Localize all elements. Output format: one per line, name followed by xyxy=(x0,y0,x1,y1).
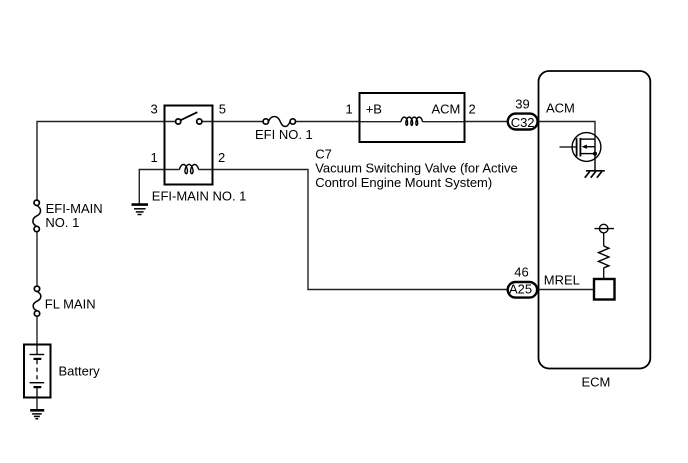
battery internal symbol xyxy=(30,345,45,398)
ECM box xyxy=(539,71,651,369)
VSV solenoid coil xyxy=(401,117,423,125)
svg-text:2: 2 xyxy=(218,150,225,165)
wire: relay pin 5 to fuse EFI NO.1 xyxy=(213,121,264,123)
svg-text:NO. 1: NO. 1 xyxy=(45,215,79,230)
relay switch wire stubs xyxy=(165,121,213,123)
ECM connector C32 pin 39 oval xyxy=(508,114,538,130)
svg-text:1: 1 xyxy=(346,102,353,117)
wire: top horizontal from riser to relay pin 3 xyxy=(36,121,164,123)
relay switch arm xyxy=(181,112,198,120)
svg-text:39: 39 xyxy=(515,97,529,112)
MOSFET source bar xyxy=(580,153,595,155)
svg-text:Vacuum Switching Valve (for Ac: Vacuum Switching Valve (for Active xyxy=(315,161,518,176)
wire: resistor to driver block xyxy=(603,268,605,279)
svg-text:5: 5 xyxy=(219,102,226,117)
svg-text:+B: +B xyxy=(366,102,382,117)
MOSFET gate lead xyxy=(560,146,577,148)
svg-text:C7: C7 xyxy=(315,147,332,162)
svg-text:ECM: ECM xyxy=(582,375,611,390)
wire: relay pin 2 to ECM connector A25 (MREL) xyxy=(213,170,508,290)
wire: battery negative to ground xyxy=(36,398,38,410)
wire: C32 to MOSFET drain inside ECM xyxy=(539,122,595,140)
MOSFET body arrow line xyxy=(586,146,596,148)
wire: A25 to driver block xyxy=(539,289,595,291)
driver block (square) inside ECM xyxy=(594,279,615,300)
relay switch contact left xyxy=(176,119,181,124)
fusible link FL MAIN (vertical) xyxy=(33,286,41,316)
MOSFET gate bar xyxy=(576,138,578,156)
svg-text:FL MAIN: FL MAIN xyxy=(45,296,96,311)
svg-text:2: 2 xyxy=(469,102,476,117)
svg-text:Control Engine Mount System): Control Engine Mount System) xyxy=(315,175,492,190)
ECM connector A25 pin 46 oval xyxy=(508,282,537,298)
fuse EFI NO. 1 xyxy=(263,116,295,126)
svg-text:EFI-MAIN NO. 1: EFI-MAIN NO. 1 xyxy=(152,189,247,204)
junction dot source xyxy=(593,152,597,156)
svg-text:46: 46 xyxy=(514,265,528,280)
VSV C7 box (Vacuum Switching Valve) xyxy=(360,93,465,142)
svg-text:A25: A25 xyxy=(509,282,532,297)
transistor Q1 MOSFET circle xyxy=(572,133,601,162)
power symbol (B+) circle with bar xyxy=(595,224,615,233)
battery box xyxy=(24,345,51,398)
wire: power symbol to resistor xyxy=(603,233,605,246)
svg-text:ACM: ACM xyxy=(432,102,461,117)
svg-text:ACM: ACM xyxy=(546,101,575,116)
MOSFET channel bar xyxy=(579,138,581,157)
svg-text:3: 3 xyxy=(151,102,158,117)
wire: relay pin 1 to ground xyxy=(139,170,164,204)
svg-text:EFI NO. 1: EFI NO. 1 xyxy=(255,127,313,142)
svg-text:1: 1 xyxy=(151,150,158,165)
relay EFI-MAIN NO.1 box xyxy=(165,106,213,185)
ground: relay coil ground symbol xyxy=(132,205,149,215)
relay coil wire stubs xyxy=(165,169,213,171)
wire: battery +B vertical riser to relay pin 3 xyxy=(36,122,38,345)
svg-text:C32: C32 xyxy=(511,115,535,130)
relay switch contact right xyxy=(197,119,202,124)
MOSFET drain bar xyxy=(580,138,595,140)
wire: fuse EFI NO.1 to VSV pin 1 xyxy=(295,121,359,123)
ground: chassis ground below MOSFET xyxy=(585,171,605,178)
relay coil xyxy=(180,165,199,174)
wire: MOSFET source to chassis ground xyxy=(594,139,596,171)
svg-text:EFI-MAIN: EFI-MAIN xyxy=(46,201,103,216)
VSV internal wire stubs xyxy=(360,121,465,123)
svg-text:Battery: Battery xyxy=(59,363,101,378)
MOSFET body arrowhead xyxy=(582,145,587,149)
resistor (MREL pull-up) xyxy=(599,246,609,268)
wire: VSV pin 2 to ECM connector C32 xyxy=(465,121,508,123)
fuse EFI-MAIN NO. 1 (fusible link, vertical) xyxy=(33,200,41,232)
svg-text:MREL: MREL xyxy=(544,273,580,288)
ground: battery ground symbol xyxy=(30,410,44,418)
